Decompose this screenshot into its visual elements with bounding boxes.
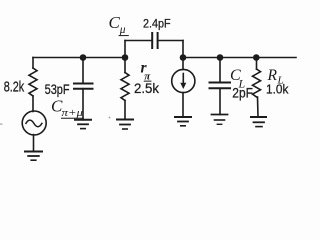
ground below 53pF	[75, 119, 91, 121]
ground below r-pi	[117, 119, 133, 121]
capacitor C_L 2pF plates	[210, 82, 231, 84]
svg-text:2pF: 2pF	[232, 85, 253, 100]
svg-text:π+μ: π+μ	[62, 107, 84, 119]
wire top rail left segment	[33, 57, 125, 59]
wire rail to current source	[182, 58, 184, 70]
node junction dot at C_L branch	[217, 54, 224, 61]
ground below AC source	[25, 151, 42, 153]
capacitor 53pF plates	[74, 83, 93, 85]
wire up to C-mu branch	[124, 41, 126, 58]
wire source to ground	[33, 135, 35, 152]
svg-text:8.2k: 8.2k	[4, 78, 25, 95]
svg-text:2.4pF: 2.4pF	[143, 17, 171, 31]
wire top rail right segment	[183, 57, 296, 59]
wire C_L to ground	[219, 88, 221, 114]
svg-text:2.5k: 2.5k	[134, 81, 159, 96]
node junction dot at r-pi / C-mu branch	[122, 54, 129, 61]
node junction dot at 53pF branch	[80, 54, 87, 61]
underline under mu subscript	[119, 35, 129, 36]
wire rail to r-pi resistor	[124, 58, 126, 73]
ground below C_L	[212, 114, 228, 116]
svg-text:53pF: 53pF	[45, 82, 70, 97]
underline under pi subscript	[144, 81, 152, 82]
svg-text:C: C	[109, 13, 121, 32]
resistor R 8.2k	[29, 68, 37, 96]
svg-text:1.0k: 1.0k	[266, 82, 289, 97]
wire R_L to ground	[257, 97, 260, 117]
resistor r-pi 2.5k	[121, 73, 129, 101]
wire current source to ground	[182, 93, 184, 117]
wire r-pi to ground	[124, 101, 126, 120]
wire left branch down from rail	[32, 58, 34, 69]
capacitor C-mu 2.4pF plates	[151, 33, 153, 48]
ground below current source	[175, 116, 191, 118]
resistor R_L 1.0k	[253, 69, 261, 97]
wire C-mu branch right horizontal	[158, 40, 183, 42]
AC source VS circle	[22, 111, 46, 135]
underline under pi+mu subscript	[61, 118, 84, 119]
scan noise dot	[109, 117, 111, 119]
node junction dot at current source	[180, 54, 187, 61]
scan noise tick at left edge	[0, 123, 2, 124]
wire rail to R_L resistor	[256, 58, 258, 70]
wire rail to 53pF capacitor	[82, 58, 84, 84]
wire resistor to source	[32, 96, 34, 112]
wire capacitor to ground	[82, 89, 84, 120]
node junction dot at R_L branch	[253, 54, 260, 61]
wire C-mu branch left horizontal	[125, 40, 152, 42]
current source arrow	[182, 74, 184, 85]
svg-text:μ: μ	[119, 24, 126, 36]
ground below R_L	[251, 116, 266, 118]
wire rail to C_L capacitor	[219, 58, 221, 83]
current source circle	[172, 69, 195, 92]
AC source sine symbol	[26, 120, 42, 127]
wire down from C-mu to right rail	[182, 41, 184, 58]
